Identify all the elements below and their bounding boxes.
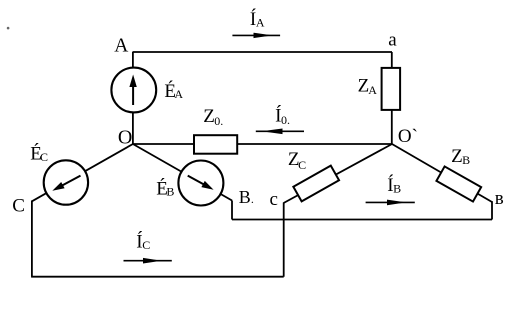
svg-text:O: O bbox=[118, 126, 132, 148]
current arrow IA bbox=[232, 33, 280, 38]
wire B vertical bbox=[231, 201, 233, 220]
wire b vertical bbox=[491, 201, 493, 219]
svg-text:C: C bbox=[40, 150, 48, 164]
impedance ZC bbox=[293, 166, 339, 202]
wire bottom C-c bbox=[31, 276, 284, 278]
wire B-b horizontal bbox=[232, 219, 492, 221]
svg-text:O`: O` bbox=[398, 126, 418, 147]
wire A vertical through EA bbox=[132, 52, 134, 144]
svg-text:0.: 0. bbox=[281, 113, 290, 127]
svg-text:B: B bbox=[166, 185, 174, 199]
svg-text:A: A bbox=[174, 87, 183, 101]
source EA bbox=[111, 68, 156, 113]
svg-text:C: C bbox=[12, 195, 25, 216]
svg-text:B: B bbox=[393, 182, 401, 196]
wire O-B diagonal bbox=[133, 144, 232, 201]
wire O-C diagonal bbox=[32, 144, 133, 201]
current arrow I0 bbox=[256, 129, 304, 135]
stray dot top-left bbox=[7, 27, 10, 30]
wire c vertical bbox=[283, 203, 285, 277]
wire O-O' neutral bbox=[133, 143, 392, 145]
wire A-a (top line) bbox=[133, 51, 393, 53]
svg-text:C: C bbox=[298, 158, 306, 172]
wire O'-b diagonal bbox=[392, 144, 492, 202]
svg-text:B: B bbox=[462, 153, 470, 167]
svg-text:Z: Z bbox=[203, 106, 215, 127]
wire O'-c diagonal bbox=[284, 144, 392, 203]
svg-text:0.: 0. bbox=[214, 114, 223, 128]
impedance ZB bbox=[436, 166, 481, 201]
svg-text:c: c bbox=[270, 189, 278, 210]
wire a vertical through ZA bbox=[391, 52, 393, 144]
svg-text:a: a bbox=[388, 30, 397, 51]
source EC bbox=[44, 160, 88, 204]
impedance ZA bbox=[382, 68, 401, 110]
svg-text:в: в bbox=[495, 188, 504, 209]
wire C vertical bbox=[31, 201, 33, 277]
current arrow IB bbox=[366, 200, 415, 206]
svg-text:C: C bbox=[142, 238, 150, 252]
svg-text:Z: Z bbox=[451, 146, 463, 167]
svg-text:A: A bbox=[368, 83, 377, 97]
svg-text:A: A bbox=[114, 36, 128, 57]
source EB bbox=[178, 161, 223, 206]
current arrow IC bbox=[124, 258, 172, 264]
svg-text:A: A bbox=[256, 16, 265, 30]
impedance Z0 bbox=[194, 135, 237, 154]
